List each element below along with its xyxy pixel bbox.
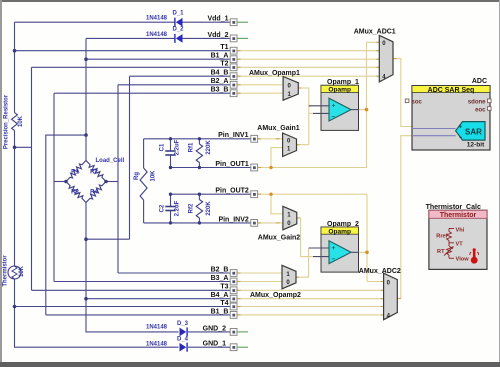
wire B1_A row [86, 58, 230, 60]
svg-text:Opamp_1: Opamp_1 [327, 79, 359, 86]
frame bottom [0, 362, 500, 367]
svg-text:Precision_Resistor: Precision_Resistor [4, 94, 10, 149]
wire Pin_OUT1 row (external) [171, 167, 251, 169]
wire stub Pin_INV1 dash [258, 138, 262, 140]
wire stub Pin_OUT2 [258, 193, 262, 195]
wire Pin_INV1 row (external) [144, 138, 251, 140]
node B1_A tap [84, 57, 88, 61]
wire B4_A row [86, 298, 230, 300]
wire T4 analog row [237, 306, 384, 308]
capacitor C2 plates [165, 206, 175, 208]
svg-text:Vlow: Vlow [456, 257, 470, 263]
mux AMux_ADC1 [379, 35, 393, 82]
wire opamp1 minus feed [309, 112, 313, 114]
node Rf2 top [198, 193, 201, 196]
node Rf1 bottom [198, 166, 201, 169]
terminal B4_B [230, 73, 237, 80]
capacitor C1 plates [165, 150, 175, 152]
node T1 tap [13, 49, 17, 53]
wire B3_A row [54, 281, 230, 283]
wire Rf1 stubs x=199.4 [198, 139, 200, 144]
resistor Rf2 zigzag [196, 200, 202, 219]
svg-text:−: − [332, 256, 336, 263]
svg-text:B2_B: B2_B [211, 266, 229, 273]
svg-text:VT: VT [456, 241, 464, 247]
svg-text:2.2uF: 2.2uF [175, 139, 181, 155]
svg-text:Pin_INV2: Pin_INV2 [218, 216, 248, 223]
svg-text:AMux_Gain1: AMux_Gain1 [257, 125, 300, 132]
op-amp Opamp_2 [309, 227, 359, 272]
svg-text:AMux_Opamp1: AMux_Opamp1 [249, 70, 300, 77]
terminal B3_B [230, 90, 237, 97]
svg-text:+: + [459, 125, 462, 131]
wire SAR minus input [412, 135, 456, 137]
frame top [0, 0, 500, 2]
svg-text:1N4148: 1N4148 [146, 16, 168, 22]
Thermistor_Calc block [429, 210, 487, 269]
wire stub B3_B terminal [237, 92, 241, 94]
svg-text:Vhi: Vhi [456, 227, 465, 233]
terminal Pin_INV1 [251, 135, 258, 142]
svg-text:Pin_OUT2: Pin_OUT2 [215, 188, 249, 195]
diode D_3 [180, 328, 187, 337]
resistor R4 bridge [86, 182, 106, 203]
node bridge bottom link [84, 237, 88, 241]
terminal B4_A [230, 295, 237, 302]
svg-text:10K: 10K [151, 170, 157, 182]
svg-text:C1: C1 [160, 143, 166, 151]
terminal Vdd_1 [230, 19, 237, 26]
pin soc [405, 99, 409, 103]
terminal T3 [230, 287, 237, 294]
node B1 link tap [84, 133, 88, 137]
svg-text:GND_2: GND_2 [203, 325, 226, 332]
node bridge right [104, 180, 108, 184]
svg-text:B1_A: B1_A [211, 53, 229, 60]
wire B3_B analog row [237, 92, 283, 94]
wire bridge left node stub [54, 181, 67, 183]
wire AMux_Opamp1 to opamp1 plus [298, 88, 309, 145]
wire T1 analog row [237, 50, 379, 52]
wire mux output ticks [298, 87, 301, 89]
wire stub B2_A terminal [237, 84, 241, 86]
terminal Pin_INV2 [251, 220, 258, 227]
wire B1_B row [46, 314, 230, 316]
node Gain1 riser tap [269, 166, 272, 169]
svg-text:Rf1: Rf1 [189, 142, 195, 152]
wire opamp1 net vertical x=366.5 [366, 42, 368, 167]
wire T1 row [15, 50, 231, 52]
terminal B2_A [230, 81, 237, 88]
diode D_4 [180, 343, 187, 352]
svg-text:SAR: SAR [465, 127, 482, 136]
wire mid-node link y=147.3 [15, 146, 32, 148]
svg-text:Opamp_2: Opamp_2 [327, 221, 359, 228]
internal divider line [444, 229, 454, 259]
node C1 top [169, 137, 172, 140]
wire Vdd_2 stub [238, 37, 249, 39]
svg-text:1N4148: 1N4148 [146, 324, 168, 330]
svg-text:R4: R4 [90, 190, 98, 196]
wire stub B1_A terminal [237, 58, 241, 60]
wire ADC2 output tick [397, 298, 401, 300]
thermistor RT zigzag [12, 266, 17, 279]
svg-text:eoc: eoc [475, 107, 486, 113]
terminal B1_B [230, 312, 237, 319]
wire vertical bridge-bottom / GND_2 x=86 [86, 203, 179, 332]
wire Gain2 output to opamp2 minus [297, 218, 313, 257]
svg-text:R3: R3 [71, 190, 79, 196]
wire B2_B row [118, 272, 230, 274]
svg-text:R2: R2 [90, 170, 98, 176]
mux AMux_Gain1 [283, 133, 297, 157]
wire stub T2 terminal [237, 66, 241, 68]
wire stub bottom rows [237, 272, 241, 274]
wire SAR plus input [412, 128, 456, 130]
node C2 top [169, 193, 172, 196]
wire GND_2 row right part [188, 331, 230, 333]
wire B3_A analog row [237, 281, 282, 283]
node Rf2 bottom [198, 221, 201, 224]
svg-text:+: + [332, 103, 336, 110]
svg-text:1N4148: 1N4148 [146, 32, 168, 38]
svg-text:220K: 220K [206, 201, 212, 216]
wire GND_2 stub [238, 331, 249, 333]
svg-text:C2: C2 [160, 204, 166, 212]
diode D_1 [176, 18, 183, 27]
wire Pin_INV2 row (external) [144, 222, 251, 224]
wire Vdd_1 row [15, 21, 175, 23]
svg-text:10K: 10K [19, 265, 25, 277]
op-amp Opamp_1 [309, 85, 359, 130]
svg-text:D_4: D_4 [177, 336, 189, 342]
wire ADC2 pin ticks [381, 281, 384, 283]
svg-text:Thermistor_Calc: Thermistor_Calc [426, 204, 481, 211]
wire GND_1 row right part [188, 346, 230, 348]
wire Pin_OUT1 analog row [258, 167, 367, 169]
wire bridge right node stub [106, 181, 119, 183]
svg-text:T4: T4 [220, 300, 228, 307]
svg-text:2.2uF: 2.2uF [175, 200, 181, 216]
svg-text:D_2: D_2 [173, 27, 185, 33]
wire vertical thermistor branch x=14.5 [14, 22, 16, 112]
svg-text:12-bit: 12-bit [467, 142, 485, 149]
svg-text:Opamp: Opamp [328, 228, 351, 235]
svg-text:−: − [332, 113, 336, 120]
svg-text:Vdd_1: Vdd_1 [207, 16, 228, 23]
wire B4_B analog row [237, 75, 379, 77]
svg-text:Rg: Rg [134, 172, 140, 180]
wire ADC1 pin0 stub [367, 41, 380, 43]
node Rf1 top [198, 137, 201, 140]
svg-text:Thermistor: Thermistor [440, 212, 477, 219]
resistor Rf1 zigzag [196, 144, 202, 163]
node opamp1 output tap [365, 108, 369, 112]
thermistor RT internal zigzag [447, 246, 452, 255]
resistor Rref internal zigzag [447, 232, 452, 241]
wire B2_B analog row [237, 272, 282, 274]
ADC SAR Seq block U_ADC [405, 86, 491, 150]
wire Gain2 pin1 dropper [271, 194, 283, 214]
svg-text:−: − [459, 135, 462, 141]
resistor Rg zigzag [140, 168, 147, 200]
wire ADC2 pin0 stub [367, 281, 384, 283]
wire C2 stubs x=170.5 [170, 194, 172, 206]
SAR core pentagon [456, 122, 485, 141]
node T4 tap [13, 305, 17, 309]
svg-text:Vdd_2: Vdd_2 [207, 32, 228, 39]
wire Gain1 pin1 riser [271, 148, 283, 168]
svg-text:Rref: Rref [436, 234, 447, 240]
wire vertical B4_B x=129.5 [129, 76, 131, 239]
node B4_A tap [84, 297, 88, 301]
node opamp2 output tap [365, 251, 369, 255]
wire vertical B3 net x=54 [53, 93, 55, 281]
svg-text:220K: 220K [206, 140, 212, 155]
terminal Pin_OUT2 [251, 191, 258, 198]
mux AMux_Opamp2 [282, 265, 296, 289]
wire stub B4_B terminal [237, 75, 241, 77]
frame right [499, 0, 500, 367]
frame left [0, 0, 2, 367]
svg-text:T3: T3 [220, 284, 228, 291]
svg-text:B4_B: B4_B [211, 70, 229, 77]
terminal Vdd_2 [230, 35, 237, 42]
terminal GND_1 [230, 344, 237, 351]
svg-text:B1_B: B1_B [211, 308, 229, 315]
wire stub Pin_INV2 dash [258, 222, 262, 224]
wire Gain1 output link [297, 144, 309, 146]
wire T4 row [15, 306, 231, 308]
svg-text:D_3: D_3 [177, 321, 189, 327]
mux AMux_ADC2 [384, 273, 398, 320]
terminal B2_B [230, 270, 237, 277]
svg-text:1N4148: 1N4148 [146, 341, 168, 347]
svg-text:AMux_Gain2: AMux_Gain2 [258, 234, 301, 241]
wire B2_A row [118, 84, 230, 86]
svg-text:Load_Cell: Load_Cell [96, 158, 125, 164]
wire Vdd_1 stub [238, 21, 249, 23]
svg-text:B3_A: B3_A [211, 275, 229, 282]
wire Rg vertical stubs x=143.6 [143, 139, 145, 168]
wire Pin_OUT2 analog row [258, 193, 368, 195]
svg-text:soc: soc [412, 100, 423, 106]
wire stub T1 terminal [237, 50, 241, 52]
wire vertical B1 net x=45.8 [46, 135, 86, 315]
terminal T4 [230, 303, 237, 310]
thermometer icon [470, 248, 479, 263]
svg-text:ADC SAR Seq: ADC SAR Seq [428, 87, 475, 94]
terminal T1 [230, 47, 237, 54]
svg-text:+: + [332, 245, 336, 252]
wire opamp1 output [359, 109, 367, 111]
svg-text:10K: 10K [18, 115, 24, 127]
wire Rf2 stubs x=199.4 [198, 194, 200, 199]
mux AMux_Gain2 [283, 206, 297, 230]
wire B2_A analog row [237, 84, 283, 86]
wire Vdd_2 row [86, 37, 175, 39]
svg-text:AMux_Opamp2: AMux_Opamp2 [250, 292, 301, 299]
wire B1_B analog row [237, 314, 384, 316]
wire vertical bridge-top x=86 [85, 38, 87, 160]
terminal Pin_OUT1 [251, 164, 258, 171]
terminal GND_2 [230, 329, 237, 336]
terminal B3_A [230, 278, 237, 285]
wire stub Pin_OUT1 [258, 167, 262, 169]
resistor R3 bridge [66, 182, 86, 203]
node mid divider tap [13, 146, 17, 150]
wire opamp1 plus feed [309, 105, 313, 107]
wire opamp2 output [359, 251, 368, 253]
wire ADC1 output [393, 59, 412, 127]
svg-text:D_1: D_1 [173, 10, 185, 16]
svg-text:ADC: ADC [472, 78, 487, 85]
node C1 bottom [169, 166, 172, 169]
svg-text:B4_A: B4_A [211, 292, 229, 299]
wire T3 analog row [237, 289, 384, 291]
wire T3 row [32, 289, 231, 291]
wire vertical B2 net x=118 [117, 85, 119, 273]
svg-text:AMux_ADC1: AMux_ADC1 [354, 28, 396, 35]
svg-text:T2: T2 [220, 61, 228, 68]
wire T2 row [32, 66, 231, 68]
wire AMux_Opamp2 output to opamp2 plus [296, 248, 309, 277]
wire B3_B row [54, 92, 230, 94]
wire bridge bottom link y=239.2 [86, 238, 130, 240]
wire Pin_OUT2 row (external) [171, 193, 251, 195]
diode D_2 [176, 34, 183, 43]
svg-text:Pin_INV1: Pin_INV1 [218, 132, 248, 139]
wire ADC2 output [397, 136, 412, 299]
wire B1_A analog row [237, 58, 379, 60]
terminal T2 [230, 64, 237, 71]
terminal B1_A [230, 56, 237, 63]
resistor Precision_Resistor zigzag [12, 113, 18, 131]
svg-text:Thermistor: Thermistor [3, 255, 9, 287]
svg-text:RT: RT [437, 249, 445, 255]
wire vertical T2/T3 x=31.5 [31, 67, 33, 290]
wire opamp2 net vertical x=367 [366, 194, 368, 281]
svg-text:B2_A: B2_A [211, 78, 229, 85]
node Gain2 dropper tap [269, 193, 272, 196]
node bridge left [64, 180, 68, 184]
svg-text:GND_1: GND_1 [203, 341, 226, 348]
svg-text:AMux_ADC2: AMux_ADC2 [359, 268, 401, 275]
mux AMux_Opamp1 [283, 77, 298, 101]
wire Pin_INV2 analog [258, 222, 283, 224]
svg-text:T1: T1 [220, 44, 228, 51]
svg-text:R1: R1 [71, 170, 79, 176]
svg-text:Rf2: Rf2 [189, 203, 195, 213]
svg-text:Opamp: Opamp [328, 87, 351, 94]
wire B4_A analog row [237, 298, 384, 300]
wire T2 analog row [237, 66, 379, 68]
wire B4_B row [130, 75, 231, 77]
svg-text:sdone: sdone [468, 100, 486, 106]
wire ADC1 output tick [393, 58, 397, 60]
resistor R1 bridge [66, 161, 86, 182]
node C2 bottom [169, 221, 172, 224]
wire ADC1 pin ticks [376, 41, 379, 43]
svg-text:Pin_OUT1: Pin_OUT1 [215, 161, 249, 168]
thermistor RT circle [8, 266, 21, 279]
wire Pin_INV1 analog [258, 138, 283, 140]
resistor R2 bridge [86, 161, 106, 182]
wire GND_1 stub [238, 346, 249, 348]
wire C1 stubs x=170.5 [170, 139, 172, 151]
svg-text:B3_B: B3_B [211, 87, 229, 94]
